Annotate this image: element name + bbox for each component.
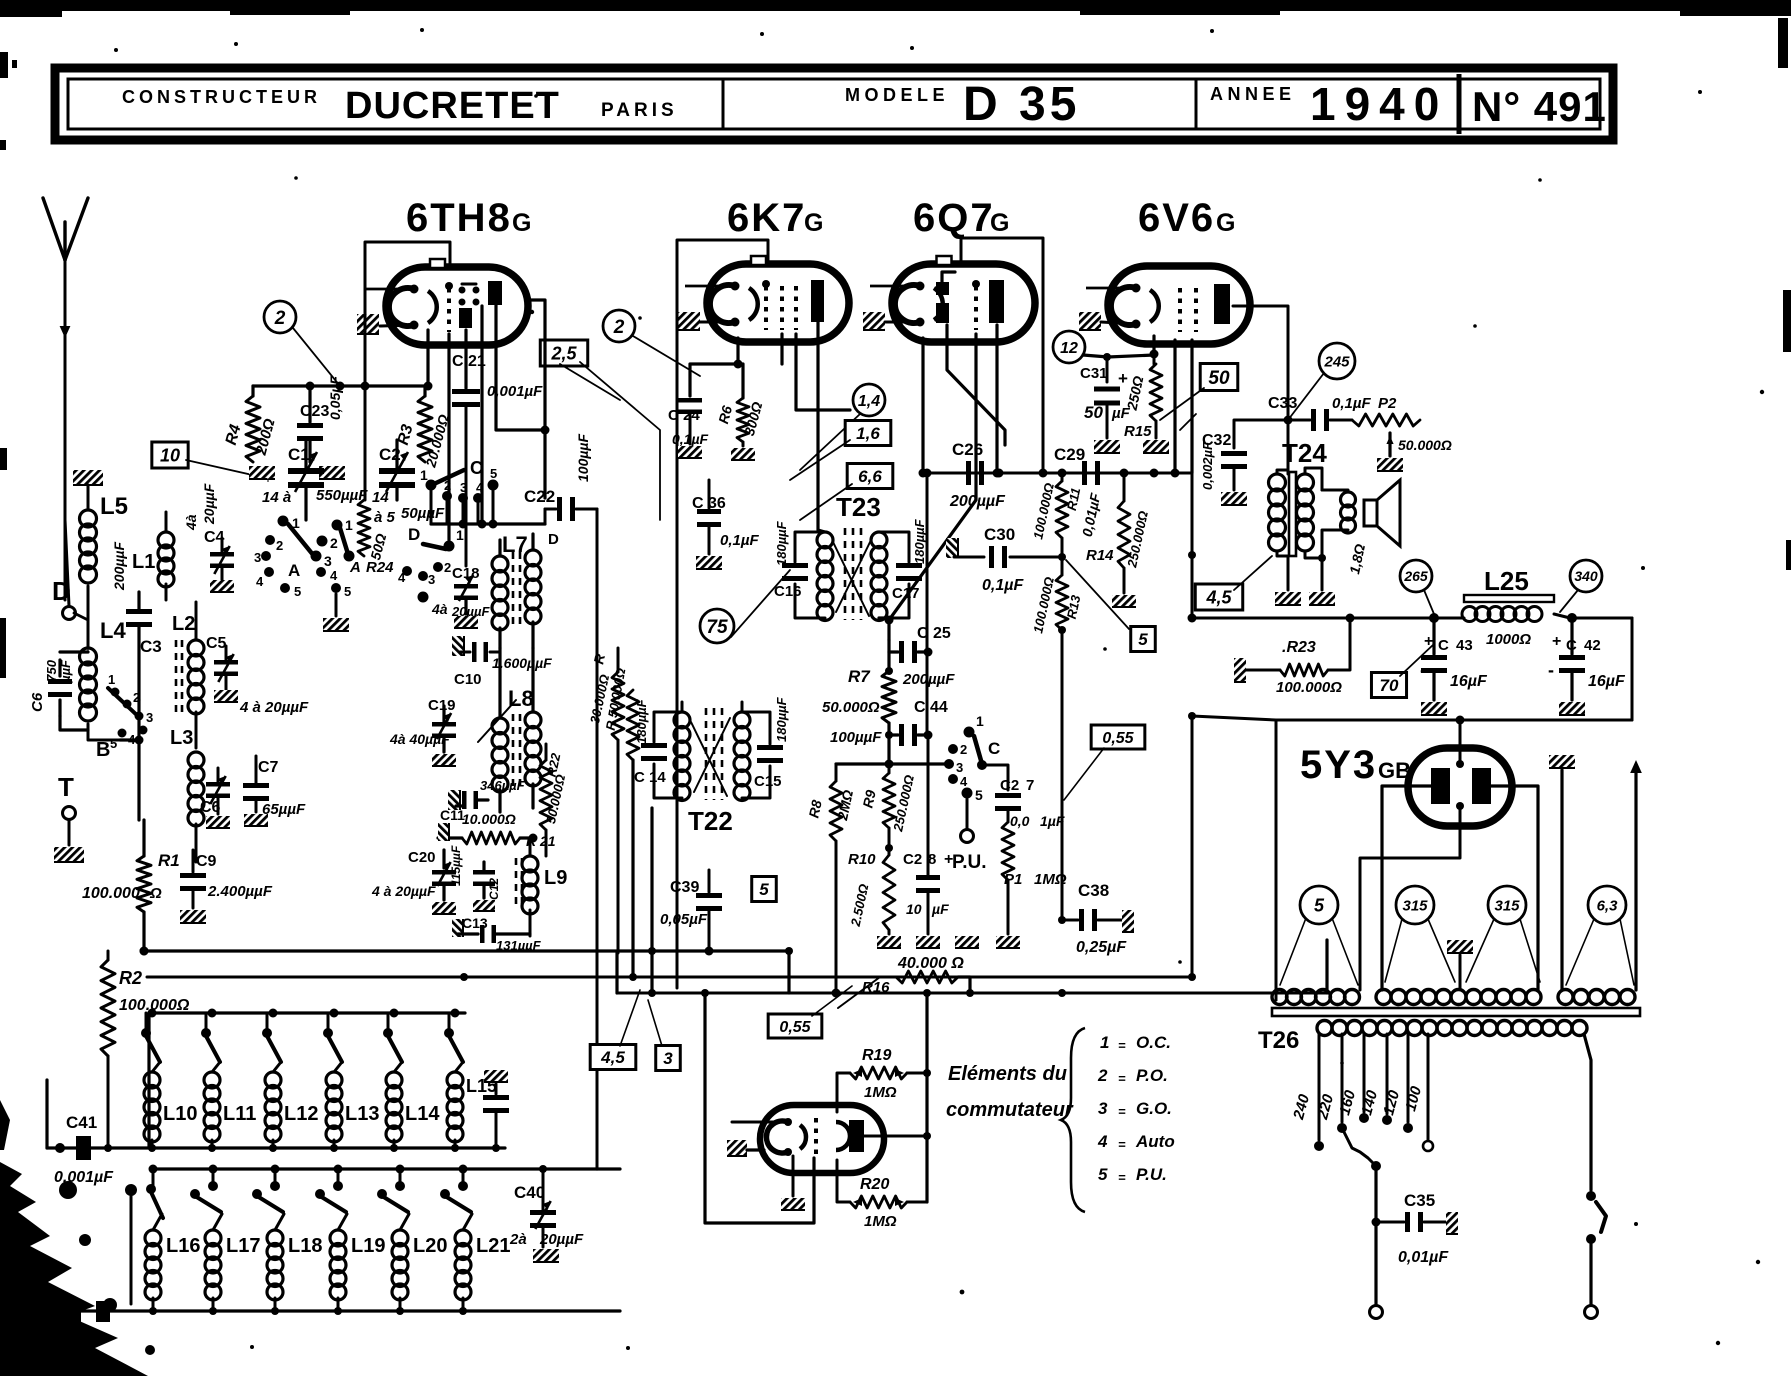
capacitor C42 bbox=[1548, 618, 1626, 715]
capacitor C28 bbox=[903, 735, 953, 948]
svg-text:L12: L12 bbox=[284, 1103, 318, 1125]
svg-text:C2: C2 bbox=[903, 851, 922, 868]
svg-text:16µF: 16µF bbox=[1588, 673, 1626, 690]
wire ps box bbox=[705, 993, 814, 1223]
svg-text:5: 5 bbox=[975, 787, 983, 803]
svg-text:4: 4 bbox=[398, 570, 406, 585]
svg-text:N° 491: N° 491 bbox=[1472, 83, 1607, 130]
coil L3 bbox=[170, 727, 204, 862]
svg-text:8: 8 bbox=[928, 851, 936, 868]
svg-text:C30: C30 bbox=[984, 525, 1015, 544]
svg-text:G: G bbox=[990, 209, 1009, 237]
resistor R20 bbox=[837, 1160, 927, 1230]
svg-text:P.O.: P.O. bbox=[1136, 1066, 1168, 1085]
wire y764 bbox=[836, 760, 952, 769]
resistor R22 bbox=[540, 744, 568, 856]
resistor R21 bbox=[438, 811, 556, 849]
svg-text:50.000Ω: 50.000Ω bbox=[1398, 437, 1452, 453]
circled 265 bbox=[1400, 560, 1434, 614]
capacitor C38 bbox=[1058, 881, 1134, 956]
svg-text:L20: L20 bbox=[413, 1235, 447, 1257]
resistor R16 bbox=[838, 955, 970, 1008]
svg-text:5: 5 bbox=[1314, 895, 1325, 915]
capacitor C36 bbox=[692, 480, 759, 569]
tube 6TH8 bbox=[364, 259, 528, 345]
svg-text:C: C bbox=[988, 739, 1000, 758]
circled 2 b bbox=[603, 310, 700, 376]
svg-text:3: 3 bbox=[956, 760, 963, 775]
svg-text:O.C.: O.C. bbox=[1136, 1033, 1171, 1052]
wire L bank2 rail bbox=[149, 1165, 598, 1190]
svg-text:.R23: .R23 bbox=[1282, 639, 1316, 656]
svg-text:0,002µF: 0,002µF bbox=[1200, 441, 1215, 490]
svg-text:6,6: 6,6 bbox=[858, 467, 882, 486]
coil L1 bbox=[132, 512, 174, 600]
svg-text:2: 2 bbox=[330, 535, 338, 551]
terminal T bbox=[58, 772, 76, 845]
text sw1 bbox=[1100, 1033, 1171, 1053]
svg-text:G: G bbox=[1216, 209, 1235, 237]
boxed 5 t22 bbox=[752, 877, 777, 902]
svg-text:4à 40µµF: 4à 40µµF bbox=[389, 731, 450, 747]
svg-text:L17: L17 bbox=[226, 1235, 260, 1257]
text elements bbox=[946, 1063, 1074, 1121]
svg-text:5: 5 bbox=[490, 466, 497, 481]
svg-text:4 à 20µµF: 4 à 20µµF bbox=[371, 883, 436, 899]
svg-text:0,55: 0,55 bbox=[1102, 730, 1134, 747]
svg-text:L19: L19 bbox=[351, 1235, 385, 1257]
wire b+ bus bbox=[1188, 473, 1465, 623]
circled 315 a bbox=[1385, 886, 1455, 982]
svg-text:B: B bbox=[96, 739, 110, 761]
svg-text:C: C bbox=[1438, 637, 1449, 654]
svg-text:C15: C15 bbox=[754, 773, 782, 790]
trimmer C18 bbox=[431, 565, 490, 628]
svg-text:65µµF: 65µµF bbox=[262, 801, 306, 818]
resistor R6 bbox=[715, 398, 765, 460]
6K7 bottom leads bbox=[690, 322, 850, 530]
svg-text:R14: R14 bbox=[1086, 547, 1114, 564]
capacitor C23 bbox=[297, 376, 343, 462]
svg-text:2: 2 bbox=[444, 560, 451, 575]
svg-text:R1: R1 bbox=[158, 851, 180, 870]
boxed 50 bbox=[1160, 364, 1238, 431]
capacitor C6ant bbox=[29, 652, 88, 730]
coil L15 bbox=[444, 1013, 497, 1152]
6Q7 cathode ground bbox=[863, 312, 920, 330]
svg-text:C10: C10 bbox=[454, 671, 482, 688]
svg-text:1: 1 bbox=[1100, 1033, 1109, 1052]
coil L13 bbox=[323, 1013, 379, 1152]
resistor R10 bbox=[848, 851, 901, 948]
coil L19 bbox=[315, 1169, 385, 1315]
coil L9 bbox=[516, 840, 567, 936]
ground T bbox=[54, 847, 84, 862]
svg-text:200µµF: 200µµF bbox=[949, 493, 1006, 510]
svg-text:T: T bbox=[58, 772, 74, 802]
circled 5 t26 bbox=[1280, 886, 1358, 985]
tube 6V6 bbox=[1086, 266, 1250, 344]
6TH8 cathode ground bbox=[357, 314, 414, 334]
resistor R19 bbox=[837, 1047, 931, 1112]
speaker bbox=[1322, 480, 1400, 575]
choke L25 bbox=[1462, 566, 1632, 648]
6TH8 top cap wire bbox=[365, 242, 450, 500]
svg-text:265: 265 bbox=[1403, 568, 1428, 584]
wire wafer bus bbox=[431, 520, 545, 529]
svg-text:42: 42 bbox=[1584, 637, 1601, 654]
svg-text:PARIS: PARIS bbox=[601, 100, 678, 121]
circled 6.3 bbox=[1566, 886, 1634, 985]
svg-text:C31: C31 bbox=[1080, 365, 1108, 382]
tube 6K7 bbox=[685, 256, 849, 342]
svg-text:C29: C29 bbox=[1054, 445, 1085, 464]
svg-text:10.000Ω: 10.000Ω bbox=[462, 811, 516, 827]
boxed 2.5 leader bbox=[580, 362, 660, 520]
svg-text:0,01µF: 0,01µF bbox=[1398, 1249, 1449, 1266]
5Y3 anode leads bbox=[1382, 786, 1538, 990]
svg-text:2.400µµF: 2.400µµF bbox=[207, 883, 273, 900]
svg-text:6K7: 6K7 bbox=[727, 196, 806, 240]
svg-text:L9: L9 bbox=[544, 867, 567, 889]
svg-text:+: + bbox=[1552, 633, 1561, 650]
wire bus y977 bbox=[147, 973, 1196, 981]
capacitor C35 bbox=[1376, 1191, 1458, 1266]
svg-text:4,5: 4,5 bbox=[600, 1048, 625, 1067]
svg-text:R20: R20 bbox=[860, 1176, 889, 1193]
svg-text:µF: µF bbox=[931, 901, 949, 917]
svg-text:14 à: 14 à bbox=[262, 489, 291, 506]
coil L11 bbox=[201, 1013, 256, 1152]
potentiometer P1 bbox=[996, 822, 1067, 948]
svg-text:340: 340 bbox=[1574, 568, 1598, 584]
circled 2 a bbox=[264, 301, 340, 386]
svg-text:50.000Ω: 50.000Ω bbox=[822, 699, 880, 716]
coil L12 bbox=[262, 1013, 318, 1152]
svg-text:T26: T26 bbox=[1258, 1027, 1299, 1054]
svg-text:T23: T23 bbox=[836, 492, 881, 522]
svg-text:2: 2 bbox=[276, 538, 283, 553]
capacitor C27 bbox=[995, 777, 1065, 829]
svg-text:C 44: C 44 bbox=[914, 699, 948, 716]
scan artifact top bar bbox=[0, 0, 1791, 17]
svg-text:5Y3: 5Y3 bbox=[1300, 743, 1377, 787]
title block border bbox=[55, 68, 1613, 140]
svg-text:=: = bbox=[1118, 1170, 1126, 1185]
svg-text:1000Ω: 1000Ω bbox=[1486, 631, 1531, 648]
svg-text:5: 5 bbox=[344, 584, 351, 599]
svg-text:16µF: 16µF bbox=[1450, 673, 1488, 690]
title text 1940 bbox=[1310, 78, 1448, 130]
svg-text:P.U.: P.U. bbox=[952, 852, 987, 873]
variable capacitor C2 bbox=[372, 440, 445, 526]
svg-text:1940: 1940 bbox=[1310, 78, 1448, 130]
svg-text:40.000 Ω: 40.000 Ω bbox=[897, 955, 964, 972]
resistor R7 bbox=[822, 652, 896, 764]
coil L4 bbox=[80, 618, 127, 740]
svg-text:L3: L3 bbox=[170, 727, 193, 749]
T26 taps bbox=[1290, 1034, 1433, 1151]
boxed 6.6 bbox=[800, 464, 893, 521]
capacitor C44 bbox=[830, 699, 948, 746]
coil L2 with core bbox=[172, 602, 204, 748]
svg-text:Eléments du: Eléments du bbox=[948, 1063, 1067, 1085]
svg-text:5: 5 bbox=[759, 880, 769, 899]
wire L bank2 bottom bbox=[64, 1299, 620, 1323]
title text d35 bbox=[963, 78, 1080, 131]
svg-text:100.000Ω: 100.000Ω bbox=[1276, 679, 1342, 696]
tube 6Q7 bbox=[870, 256, 1035, 342]
ground C23 bbox=[319, 466, 345, 479]
svg-text:14: 14 bbox=[372, 489, 389, 506]
ground C1a bbox=[268, 466, 269, 481]
svg-text:4 à 20µµF: 4 à 20µµF bbox=[239, 699, 309, 716]
coil L10 bbox=[141, 1013, 197, 1152]
svg-text:10: 10 bbox=[906, 901, 922, 917]
svg-text:5: 5 bbox=[294, 584, 301, 599]
wire ps right bus bbox=[925, 993, 928, 1202]
trimmer C5 bbox=[206, 635, 309, 716]
svg-text:75: 75 bbox=[706, 617, 728, 638]
wire L bank1 rails bbox=[47, 1009, 505, 1149]
tube V5 grounds bbox=[727, 1140, 805, 1210]
svg-text:A: A bbox=[349, 559, 361, 576]
svg-text:1: 1 bbox=[108, 672, 115, 687]
svg-text:100.000: 100.000 bbox=[82, 885, 140, 902]
svg-text:R15: R15 bbox=[1124, 423, 1152, 440]
text sw3 bbox=[1098, 1099, 1172, 1119]
svg-text:115µµF: 115µµF bbox=[449, 845, 463, 886]
svg-text:0,05µF: 0,05µF bbox=[660, 911, 708, 928]
6Q7 top cap wire bbox=[961, 238, 1043, 472]
svg-text:180µµF: 180µµF bbox=[912, 518, 927, 564]
svg-text:10: 10 bbox=[160, 445, 180, 465]
svg-text:1: 1 bbox=[456, 527, 464, 543]
svg-text:C9: C9 bbox=[196, 853, 217, 870]
svg-text:3: 3 bbox=[428, 572, 435, 587]
svg-text:50: 50 bbox=[1208, 368, 1230, 389]
capacitor C13 bbox=[452, 915, 542, 953]
transformer T24 bbox=[1269, 420, 1336, 605]
svg-text:D 35: D 35 bbox=[963, 78, 1080, 131]
svg-text:P2: P2 bbox=[1378, 395, 1397, 412]
svg-text:L5: L5 bbox=[100, 493, 128, 520]
6TH8 grids and anodes bbox=[445, 281, 502, 332]
svg-text:315: 315 bbox=[1402, 897, 1428, 914]
svg-text:1: 1 bbox=[976, 713, 984, 729]
boxed 0.55 right bbox=[1064, 725, 1145, 800]
trimmer C19 bbox=[389, 697, 456, 766]
wire long verticals bbox=[597, 509, 1327, 1169]
resistor R4 bbox=[223, 386, 279, 462]
coil L18 bbox=[252, 1169, 322, 1315]
svg-text:6Q7: 6Q7 bbox=[913, 196, 995, 240]
trimmer C6 bbox=[200, 768, 230, 828]
svg-text:C39: C39 bbox=[670, 879, 699, 896]
svg-text:0,001µF: 0,001µF bbox=[54, 1169, 114, 1186]
svg-text:2,5: 2,5 bbox=[550, 343, 577, 363]
text sw4 bbox=[1097, 1132, 1175, 1152]
capacitor C10 bbox=[452, 636, 552, 688]
svg-text:R7: R7 bbox=[848, 667, 871, 686]
svg-text:L4: L4 bbox=[100, 618, 126, 643]
trimmer C4 bbox=[183, 483, 234, 592]
6TH8 bottom leads bbox=[424, 300, 550, 540]
svg-text:C3: C3 bbox=[140, 637, 162, 656]
svg-text:1: 1 bbox=[345, 517, 353, 533]
tube label 6Q7G bbox=[913, 196, 1009, 240]
scan artifact edges bbox=[0, 18, 1791, 678]
svg-text:750: 750 bbox=[44, 659, 59, 681]
svg-text:C20: C20 bbox=[408, 849, 436, 866]
svg-text:T22: T22 bbox=[688, 806, 733, 836]
svg-text:100µµF: 100µµF bbox=[575, 434, 591, 482]
svg-text:L7: L7 bbox=[502, 532, 528, 557]
svg-text:50µµF: 50µµF bbox=[401, 505, 445, 522]
resistor R13 bbox=[1030, 575, 1083, 920]
svg-text:3: 3 bbox=[324, 553, 332, 569]
terminal D bbox=[52, 520, 76, 620]
antenna bbox=[43, 198, 88, 600]
svg-text:C5: C5 bbox=[206, 635, 227, 652]
title text ducretet bbox=[345, 85, 560, 127]
ground T26 ct bbox=[1447, 940, 1473, 988]
text sw2 bbox=[1097, 1066, 1168, 1086]
tube label 6TH8G bbox=[406, 196, 531, 240]
svg-text:200µµF: 200µµF bbox=[902, 671, 955, 688]
tube label 6K7G bbox=[727, 196, 823, 240]
svg-text:G: G bbox=[804, 209, 823, 237]
tube 5Y3 bbox=[1360, 720, 1512, 990]
svg-text:Ω: Ω bbox=[149, 885, 162, 902]
svg-text:1,4: 1,4 bbox=[858, 393, 880, 410]
svg-text:A: A bbox=[288, 561, 300, 580]
svg-text:=: = bbox=[1118, 1038, 1126, 1053]
svg-text:4à: 4à bbox=[431, 601, 448, 617]
capacitor C22 bbox=[524, 434, 597, 524]
boxed 10 bbox=[152, 442, 266, 478]
switch wafer PU bbox=[944, 713, 1008, 873]
tube V5 anode wire bbox=[864, 1132, 931, 1140]
svg-text:L18: L18 bbox=[288, 1235, 322, 1257]
svg-text:C41: C41 bbox=[66, 1113, 97, 1132]
svg-text:C16: C16 bbox=[774, 583, 802, 600]
svg-text:0,55: 0,55 bbox=[779, 1019, 811, 1036]
svg-text:C35: C35 bbox=[1404, 1191, 1435, 1210]
svg-text:C: C bbox=[452, 353, 464, 370]
capacitor C20 bbox=[371, 845, 463, 914]
svg-text:C6: C6 bbox=[29, 692, 46, 712]
svg-text:C7: C7 bbox=[258, 759, 279, 776]
potentiometer P2 bbox=[1352, 395, 1452, 471]
svg-text:50: 50 bbox=[1084, 403, 1103, 422]
switch wafer A bbox=[254, 515, 338, 599]
capacitor L15C bbox=[483, 1070, 509, 1152]
text sw5 bbox=[1098, 1165, 1167, 1185]
svg-text:C 14: C 14 bbox=[634, 769, 666, 786]
trimmer C40 bbox=[509, 1165, 584, 1262]
transformer T26 primary bbox=[1258, 1021, 1587, 1055]
boxed 1.6 bbox=[790, 421, 891, 481]
svg-text:+: + bbox=[1118, 369, 1128, 388]
title text constructeur bbox=[122, 87, 321, 107]
6K7 grids anode bbox=[762, 280, 824, 330]
capacitor C11 bbox=[440, 778, 526, 823]
capacitor C12 bbox=[473, 862, 501, 911]
resistor R5 bbox=[587, 648, 624, 953]
svg-text:L25: L25 bbox=[1484, 566, 1529, 596]
6Q7 bottom leads bbox=[889, 325, 1005, 620]
svg-text:L13: L13 bbox=[345, 1103, 379, 1125]
coil L21 bbox=[440, 1169, 510, 1315]
svg-text:4,5: 4,5 bbox=[1205, 587, 1232, 607]
title text annee bbox=[1210, 84, 1296, 104]
resistor R24 bbox=[349, 500, 394, 576]
svg-text:G: G bbox=[512, 209, 531, 237]
svg-text:2: 2 bbox=[274, 308, 286, 329]
svg-text:0,1µF: 0,1µF bbox=[720, 532, 759, 549]
arrow up bbox=[1630, 760, 1642, 990]
T26 selector bbox=[1342, 1128, 1381, 1227]
svg-text:L8: L8 bbox=[508, 686, 534, 711]
circled 1.4 bbox=[800, 384, 885, 470]
svg-text:5: 5 bbox=[110, 736, 117, 751]
capacitor C41 bbox=[54, 1113, 114, 1186]
svg-text:315: 315 bbox=[1494, 897, 1520, 914]
resistor R11 bbox=[1030, 469, 1103, 576]
transformer T26 core bbox=[1272, 1008, 1640, 1016]
capacitor C15 bbox=[754, 696, 789, 790]
svg-text:R24: R24 bbox=[366, 559, 394, 576]
svg-text:3: 3 bbox=[146, 710, 153, 725]
svg-text:R2: R2 bbox=[119, 968, 142, 988]
svg-text:21: 21 bbox=[468, 353, 486, 370]
svg-text:C26: C26 bbox=[952, 440, 983, 459]
scan artifact bottom-left blob bbox=[0, 1100, 155, 1376]
svg-text:C 25: C 25 bbox=[917, 625, 951, 642]
resistor R2 bbox=[101, 951, 190, 1147]
svg-text:6V6: 6V6 bbox=[1138, 196, 1215, 240]
svg-text:D: D bbox=[548, 531, 559, 548]
svg-text:L14: L14 bbox=[405, 1103, 440, 1125]
coil L5 bbox=[80, 485, 129, 648]
ground PU bbox=[955, 842, 979, 948]
capacitor C31 bbox=[1080, 353, 1131, 453]
svg-text:4: 4 bbox=[330, 568, 338, 583]
svg-text:L11: L11 bbox=[223, 1103, 256, 1125]
svg-text:CONSTRUCTEUR: CONSTRUCTEUR bbox=[122, 87, 321, 107]
svg-text:6,3: 6,3 bbox=[1597, 897, 1619, 914]
svg-text:4à: 4à bbox=[183, 514, 199, 531]
capacitor C25 bbox=[889, 625, 955, 688]
capacitor C21 bbox=[452, 353, 543, 566]
svg-text:200µµF: 200µµF bbox=[111, 542, 127, 591]
svg-text:3: 3 bbox=[663, 1049, 673, 1068]
svg-text:43: 43 bbox=[1456, 637, 1473, 654]
svg-text:20µµF: 20µµF bbox=[201, 483, 217, 525]
svg-text:0,1µF: 0,1µF bbox=[1332, 395, 1371, 412]
capacitor C43 bbox=[1420, 618, 1488, 715]
ground R4 bbox=[249, 466, 275, 479]
svg-text:1,6: 1,6 bbox=[856, 424, 880, 443]
coil L20 bbox=[377, 1169, 447, 1315]
T26 bottom terminal bbox=[1370, 1222, 1383, 1319]
svg-text:=: = bbox=[1118, 1137, 1126, 1152]
capacitor C16 bbox=[774, 520, 808, 600]
coil L16 bbox=[125, 1184, 200, 1315]
boxed 70 bbox=[1371, 644, 1434, 698]
wire hf bus bbox=[923, 469, 1193, 478]
